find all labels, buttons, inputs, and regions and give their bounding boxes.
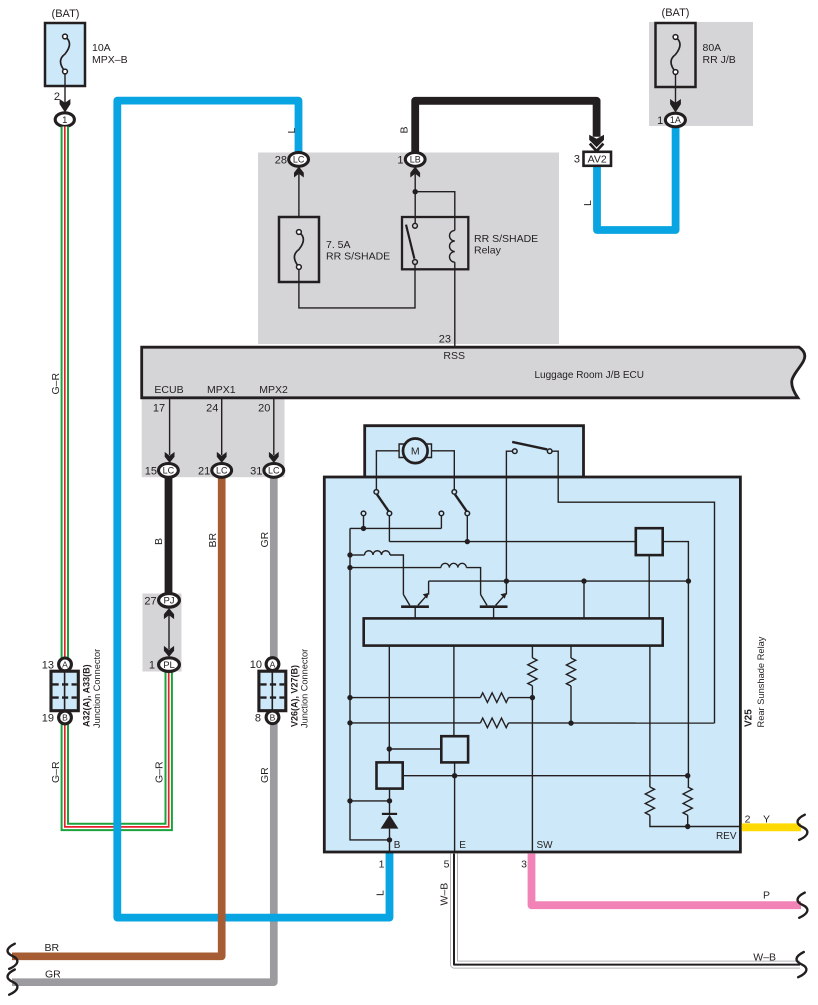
svg-text:MPX1: MPX1 xyxy=(207,384,236,396)
wire: LC to fuse F2 xyxy=(298,174,300,217)
svg-text:1A: 1A xyxy=(670,115,681,125)
wire: L1 to Q1 collector xyxy=(390,555,403,595)
wire: bus to S2 column (E) xyxy=(453,646,455,737)
svg-text:5: 5 xyxy=(444,858,450,870)
arrow into LC xyxy=(294,167,304,178)
svg-text:Junction Connector: Junction Connector xyxy=(300,649,310,728)
svg-text:G–R: G–R xyxy=(154,761,166,783)
svg-text:1: 1 xyxy=(149,660,155,672)
wire: fuse F1 pin 2 lead xyxy=(64,74,66,105)
svg-text:LC: LC xyxy=(216,466,228,476)
wire: S2 bottom to E line xyxy=(454,762,456,775)
svg-text:10: 10 xyxy=(250,659,262,671)
gray block: top-right RR J/B fuse background xyxy=(649,22,753,126)
svg-text:15: 15 xyxy=(145,466,157,478)
svg-text:13: 13 xyxy=(42,659,54,671)
connector pin 1 LB (oval) xyxy=(405,153,425,167)
relay coil xyxy=(454,217,456,230)
svg-text:A: A xyxy=(270,659,276,669)
svg-text:1: 1 xyxy=(379,858,385,870)
svg-text:V26(A), V27(B): V26(A), V27(B) xyxy=(289,665,299,727)
arrow down above PL xyxy=(164,646,174,657)
resistor R7 xyxy=(649,646,651,787)
svg-text:B: B xyxy=(398,126,410,133)
svg-text:21: 21 xyxy=(198,466,210,478)
connector pin 1 PL (oval) xyxy=(159,658,180,672)
fuse F2 7.5A RR S/SHADE xyxy=(279,217,319,282)
svg-text:LC: LC xyxy=(163,466,175,476)
svg-text:1: 1 xyxy=(657,115,663,127)
svg-text:L: L xyxy=(582,200,594,206)
svg-text:LC: LC xyxy=(268,466,280,476)
wire: switch outputs to logic square S1 xyxy=(388,516,390,542)
resistor R3 xyxy=(531,646,533,658)
wire: S1 bottom to IC bus xyxy=(648,555,650,618)
svg-text:3: 3 xyxy=(574,154,580,166)
svg-text:B: B xyxy=(62,713,68,723)
svg-text:MPX–B: MPX–B xyxy=(92,54,128,66)
wire: S1 right to REV rail xyxy=(663,542,689,787)
wire: switch C left contact down to node xyxy=(506,451,512,581)
wire L (blue): LC28 up, across top, down left side, across bottom to relay pin 1 xyxy=(117,101,389,918)
wire: ECU pin 20 to LC oval xyxy=(273,398,275,455)
wire: switch C right contact to right rail xyxy=(552,451,715,723)
transistor Q1 xyxy=(401,605,429,608)
resistor R8 xyxy=(683,787,692,815)
svg-text:REV: REV xyxy=(716,831,737,842)
svg-text:B: B xyxy=(153,538,165,545)
svg-text:31: 31 xyxy=(250,466,262,478)
svg-text:1: 1 xyxy=(62,115,67,126)
relay coil L2 xyxy=(350,567,441,569)
junction connector V26(A), V27(B) xyxy=(259,658,286,724)
fuse F3 80A RR J/B xyxy=(656,23,696,87)
wire REV: to box edge xyxy=(688,826,740,828)
svg-text:Junction Connector: Junction Connector xyxy=(92,649,102,728)
svg-text:23: 23 xyxy=(439,334,451,346)
svg-text:19: 19 xyxy=(42,713,54,725)
resistor R6 (horizontal) xyxy=(350,722,480,724)
switch C (top right) xyxy=(512,442,547,450)
svg-text:Y: Y xyxy=(763,813,770,825)
wire W-B: pin 5 down and right to edge xyxy=(454,854,800,965)
relay switch contacts xyxy=(406,225,414,259)
arrow up below PJ xyxy=(164,608,174,619)
relay RR S/SHADE box xyxy=(402,217,468,269)
svg-text:2: 2 xyxy=(54,91,60,103)
svg-text:RR S/SHADE: RR S/SHADE xyxy=(474,233,538,245)
svg-text:Relay: Relay xyxy=(474,245,502,257)
connector pin 1A (oval) xyxy=(665,113,685,127)
connector pin 31 LC (oval) xyxy=(264,464,284,478)
wire: LB down to relay switch, node at 191.7 xyxy=(414,174,416,224)
connector AV2 xyxy=(584,152,612,166)
wire G-R: from pin 1 down, across bottom, up to PL xyxy=(65,127,169,827)
svg-text:L: L xyxy=(374,890,386,896)
svg-text:M: M xyxy=(411,446,420,458)
svg-text:BR: BR xyxy=(207,532,219,547)
gray block: luggage room J/B upper background xyxy=(258,153,559,345)
wire B (black): LC15 to PJ xyxy=(165,477,173,594)
gray block: connector column background below ECU banner xyxy=(142,398,285,477)
junction connector A32(A), A33(B) xyxy=(51,658,78,724)
svg-text:A: A xyxy=(62,660,68,670)
wire: left rail x=350 down to node B xyxy=(350,528,390,840)
wire: rail y=775.7 xyxy=(403,775,688,777)
svg-text:20: 20 xyxy=(258,403,270,415)
wire: node to left rail y=800.9 xyxy=(350,800,390,802)
svg-text:RR S/SHADE: RR S/SHADE xyxy=(326,251,390,263)
wire Y (yellow): REV pin 2 to edge xyxy=(742,823,801,831)
diode D1 xyxy=(382,813,397,815)
wire SW: R3 bottom to pin SW xyxy=(531,686,533,852)
switch A (motor left) xyxy=(377,494,389,511)
svg-text:27: 27 xyxy=(144,595,156,607)
relay V25 outline (top protrusion) xyxy=(365,426,584,478)
svg-text:L: L xyxy=(286,128,298,134)
svg-text:17: 17 xyxy=(153,403,165,415)
wire: bus to S3 column xyxy=(388,646,390,763)
svg-text:24: 24 xyxy=(206,403,218,415)
wire: ECU pin 17 to LC oval xyxy=(169,398,171,455)
svg-text:8: 8 xyxy=(255,712,261,724)
wire: PJ-PL link xyxy=(168,615,170,649)
resistor R4 xyxy=(570,646,572,658)
resistor R5 (horizontal) xyxy=(350,697,480,699)
wire: ECU pin 24 to LC oval xyxy=(221,398,223,455)
transistor Q2 xyxy=(480,605,508,608)
wire B (black): LB oval up, right, down to AV2 arrow xyxy=(415,101,596,153)
wire: S3 bottom to diode node xyxy=(389,789,391,814)
wire L (blue): 1A oval down, left, up to AV2 xyxy=(597,127,676,230)
svg-text:GR: GR xyxy=(259,767,271,783)
svg-text:LC: LC xyxy=(293,155,305,165)
svg-text:1: 1 xyxy=(397,155,403,167)
wire B: diode to pin B xyxy=(389,829,391,852)
svg-text:Luggage Room J/B ECU: Luggage Room J/B ECU xyxy=(535,370,645,381)
logic square S3 xyxy=(377,762,403,788)
gray block: PJ-PL connector background xyxy=(143,594,182,672)
svg-text:B: B xyxy=(270,713,276,723)
switch B (motor right) xyxy=(455,494,467,511)
wire: L2 to Q2 collector xyxy=(466,568,480,595)
logic square S2 xyxy=(441,736,468,762)
svg-text:V25: V25 xyxy=(744,709,755,727)
svg-text:2: 2 xyxy=(745,813,751,825)
wire: emitter rail y=581 xyxy=(429,580,689,582)
svg-text:GR: GR xyxy=(45,969,61,981)
wire: motor left lead xyxy=(376,451,399,490)
svg-text:PL: PL xyxy=(163,660,175,671)
connector pin 1 (oval) below F1 xyxy=(55,113,74,127)
relay V25 outline (main box) xyxy=(324,477,740,852)
svg-text:E: E xyxy=(459,840,466,851)
wire BR: from oval 21 LC down and left to edge xyxy=(12,477,222,956)
wire GR: from oval 31 LC down and left to edge xyxy=(12,477,274,982)
wire: motor right lead xyxy=(432,451,455,490)
svg-text:G–R: G–R xyxy=(50,372,62,394)
wire E: to pin E xyxy=(454,776,456,852)
fuse F1 10A MPX-B xyxy=(45,23,85,86)
connector pin 27 PJ (oval) xyxy=(159,594,180,608)
connector pin 15 LC (oval) xyxy=(159,464,179,478)
arrow into LB xyxy=(410,167,420,178)
wire: rail to IC bus at x=584 xyxy=(583,581,585,618)
ECU banner: Luggage Room J/B ECU xyxy=(142,347,805,398)
svg-text:RR J/B: RR J/B xyxy=(703,54,736,66)
svg-text:BR: BR xyxy=(45,942,60,954)
svg-text:LB: LB xyxy=(410,155,421,165)
IC bus (long rectangle) xyxy=(364,618,663,645)
svg-text:PJ: PJ xyxy=(163,596,174,607)
svg-text:28: 28 xyxy=(275,155,287,167)
wire: S3 column to S2 left xyxy=(389,748,441,750)
svg-text:W–B: W–B xyxy=(438,883,450,906)
logic square S1 xyxy=(636,528,663,555)
svg-text:W–B: W–B xyxy=(753,951,776,963)
svg-text:P: P xyxy=(763,890,770,902)
svg-text:10A: 10A xyxy=(92,42,111,54)
wire: F3 pin 1 lead xyxy=(675,74,677,104)
wire P (pink): pin 3 down and right to edge xyxy=(532,854,802,906)
svg-text:(BAT): (BAT) xyxy=(662,7,690,19)
wire RSS: relay coil to ECU pin 23 xyxy=(454,262,456,346)
wire: throw-contact bus y=528 xyxy=(350,527,441,529)
svg-text:B: B xyxy=(394,840,401,851)
svg-text:3: 3 xyxy=(521,858,527,870)
connector arrow into AV2 xyxy=(589,135,604,148)
motor M xyxy=(403,439,428,464)
svg-text:A32(A), A33(B): A32(A), A33(B) xyxy=(82,664,92,727)
svg-text:7. 5A: 7. 5A xyxy=(326,239,351,251)
connector pin 21 LC (oval) xyxy=(212,464,232,478)
svg-text:RSS: RSS xyxy=(443,350,465,362)
svg-text:GR: GR xyxy=(259,531,271,547)
wire: F2 bottom to relay switch bottom xyxy=(299,264,415,308)
svg-text:ECUB: ECUB xyxy=(154,384,183,396)
svg-text:G–R: G–R xyxy=(50,761,62,783)
svg-text:Rear Sunshade Relay: Rear Sunshade Relay xyxy=(756,636,766,727)
svg-text:AV2: AV2 xyxy=(588,153,607,165)
relay coil L1 xyxy=(350,554,365,556)
svg-text:80A: 80A xyxy=(703,42,722,54)
svg-text:SW: SW xyxy=(537,840,554,851)
svg-text:MPX2: MPX2 xyxy=(259,384,288,396)
svg-text:(BAT): (BAT) xyxy=(52,8,80,20)
connector pin 28 LC (oval) xyxy=(289,153,309,167)
